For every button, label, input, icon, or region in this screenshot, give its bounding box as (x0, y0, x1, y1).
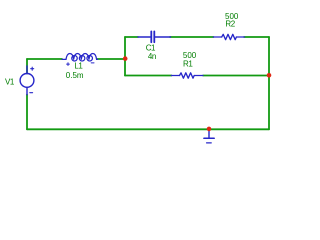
node: junction at right vertical / R1 (267, 73, 272, 78)
svg-text:R2: R2 (225, 20, 235, 29)
voltage source V1 (20, 66, 34, 95)
svg-text:V1: V1 (5, 77, 15, 86)
svg-text:R1: R1 (183, 60, 193, 69)
wire: V1 bottom vertical down to bottom row (26, 95, 28, 130)
wire: mid row horizontal from L1 to left junction (97, 58, 125, 60)
svg-text:L1: L1 (74, 62, 83, 71)
wire: R1 row right segment (203, 75, 269, 77)
capacitor C1 (138, 31, 171, 42)
wire: top row between C1 and R2 (170, 36, 214, 38)
inductor L1 (62, 54, 98, 66)
wire: R1 row left segment (125, 75, 172, 77)
wire: top row left segment to C1 (125, 36, 138, 38)
node: junction at left branch (123, 56, 128, 61)
wire: top row from R2 to top-right corner (244, 36, 269, 38)
wire: left branch vertical (124, 37, 126, 76)
node: ground junction (207, 127, 212, 132)
ground (204, 130, 214, 143)
wire: bottom row (27, 128, 269, 130)
resistor R2 (213, 34, 244, 39)
wire: mid row horizontal from V1 to L1 (27, 58, 62, 60)
svg-text:4n: 4n (148, 52, 156, 61)
svg-text:0.5m: 0.5m (66, 71, 84, 80)
wire: right vertical (268, 37, 270, 129)
resistor R1 (171, 73, 203, 78)
wire: V1 top vertical up to mid row (26, 59, 28, 74)
